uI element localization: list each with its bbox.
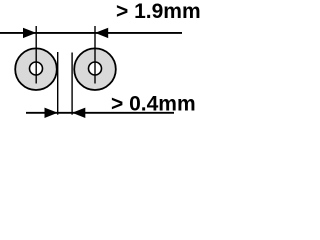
top arrowhead pointing right at P1 center (23, 28, 36, 38)
bottom arrowhead pointing left at gap right (72, 108, 85, 118)
svg-text:> 1.9mm: > 1.9mm (116, 0, 200, 23)
top dimension line (pitch) (0, 32, 182, 34)
pad P1 hole (30, 62, 43, 75)
top arrowhead pointing left at P2 center (95, 28, 108, 38)
pad P1 (left, outer copper) (15, 48, 57, 90)
bottom arrowhead pointing right at gap left (45, 108, 58, 118)
pad P2 hole (89, 62, 102, 75)
pad P2 (right, outer copper) (74, 48, 116, 90)
extension line (right edge of pad P1) (57, 52, 59, 115)
center line of pad P2 (94, 26, 96, 84)
extension line (left edge of pad P2) (71, 53, 73, 115)
svg-text:> 0.4mm: > 0.4mm (111, 92, 196, 115)
center line of pad P1 (35, 26, 37, 84)
bottom dimension line (gap) (26, 112, 174, 114)
